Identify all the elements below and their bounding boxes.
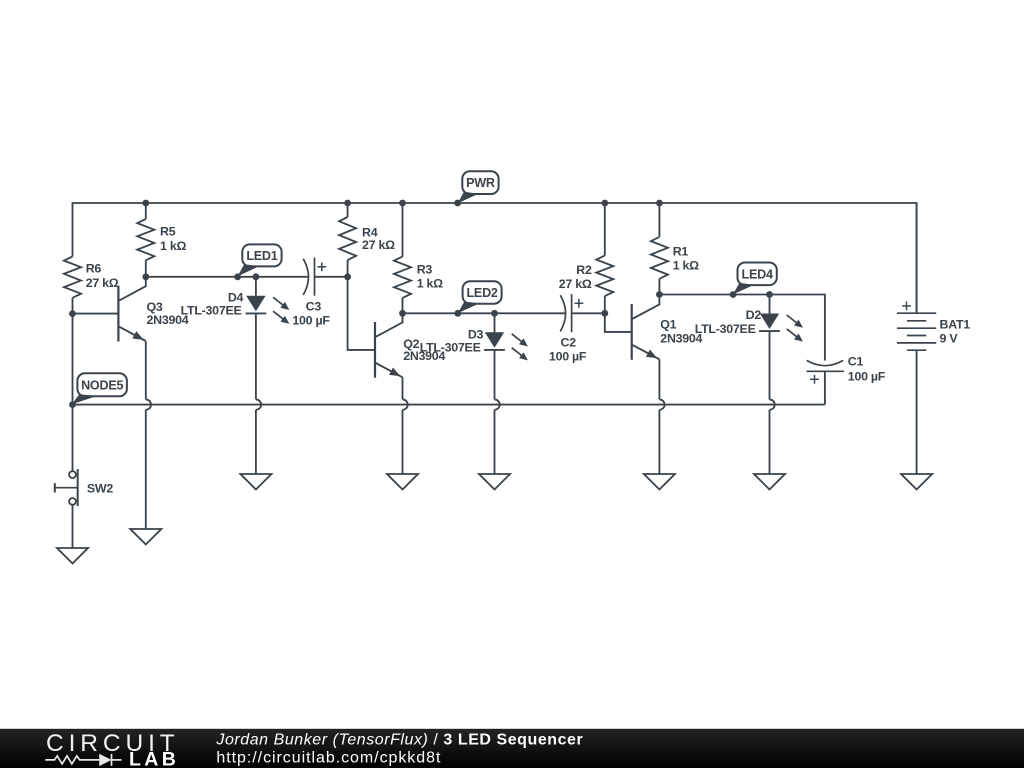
svg-text:PWR: PWR — [466, 176, 495, 190]
svg-text:27 kΩ: 27 kΩ — [86, 276, 119, 290]
svg-text:100 µF: 100 µF — [549, 350, 587, 364]
svg-text:LTL-307EE: LTL-307EE — [181, 303, 242, 317]
svg-text:R6: R6 — [86, 261, 102, 275]
svg-text:SW2: SW2 — [87, 482, 113, 496]
svg-text:1 kΩ: 1 kΩ — [673, 259, 699, 273]
svg-text:R2: R2 — [576, 263, 592, 277]
svg-text:C1: C1 — [848, 355, 864, 369]
svg-text:1 kΩ: 1 kΩ — [417, 276, 443, 290]
svg-text:http://circuitlab.com/cpkkd8t: http://circuitlab.com/cpkkd8t — [216, 749, 441, 766]
svg-text:D4: D4 — [228, 290, 244, 304]
svg-text:R1: R1 — [673, 244, 689, 258]
svg-text:D3: D3 — [468, 328, 484, 342]
svg-text:NODE5: NODE5 — [81, 378, 123, 392]
svg-text:100 µF: 100 µF — [848, 369, 886, 383]
svg-text:R3: R3 — [417, 263, 433, 277]
svg-text:D2: D2 — [746, 308, 762, 322]
svg-text:1 kΩ: 1 kΩ — [160, 239, 186, 253]
svg-text:27 kΩ: 27 kΩ — [559, 277, 592, 291]
svg-text:LED2: LED2 — [466, 286, 497, 300]
svg-text:Jordan Bunker (TensorFlux) / 3: Jordan Bunker (TensorFlux) / 3 LED Seque… — [215, 732, 583, 749]
svg-text:C2: C2 — [561, 336, 577, 350]
svg-text:LED4: LED4 — [742, 267, 773, 281]
svg-text:9 V: 9 V — [940, 331, 959, 345]
svg-text:LTL-307EE: LTL-307EE — [420, 341, 481, 355]
svg-text:LED1: LED1 — [246, 249, 277, 263]
svg-text:BAT1: BAT1 — [940, 317, 971, 331]
svg-text:LTL-307EE: LTL-307EE — [695, 322, 756, 336]
svg-text:27 kΩ: 27 kΩ — [362, 238, 395, 252]
svg-text:Q3: Q3 — [147, 300, 163, 314]
svg-text:100 µF: 100 µF — [292, 314, 330, 328]
svg-text:LAB: LAB — [129, 749, 179, 768]
svg-text:C3: C3 — [306, 299, 322, 313]
svg-text:Q1: Q1 — [660, 318, 676, 332]
svg-text:R5: R5 — [160, 225, 176, 239]
